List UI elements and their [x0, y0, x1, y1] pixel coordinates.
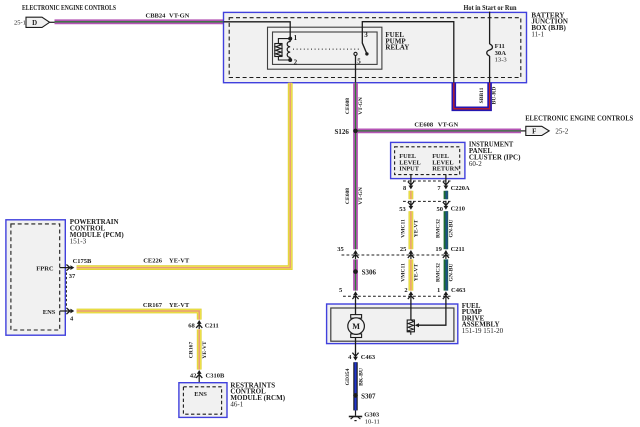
wire CE608 VT-GN (S126 to EEC F) — [358, 128, 521, 133]
relay suppression resistor branch — [278, 39, 290, 44]
instrument panel cluster (IPC) outline — [391, 142, 465, 178]
svg-text:YE-VT: YE-VT — [169, 302, 190, 309]
svg-text:CBB24: CBB24 — [146, 13, 167, 20]
svg-text:151-19 151-20: 151-19 151-20 — [462, 327, 504, 335]
splice node S306 — [353, 269, 358, 274]
label RESTRAINTS CONTROL MODULE (RCM) 46-1 — [230, 381, 285, 408]
connector C220A dashed line — [403, 180, 451, 182]
svg-text:ELECTRONIC ENGINE CONTROLS: ELECTRONIC ENGINE CONTROLS — [525, 115, 633, 123]
relay actuation dotted link — [293, 48, 359, 50]
battery junction box (BJB) outline — [224, 12, 527, 82]
connector C210 pin 50 — [443, 201, 449, 210]
svg-text:ELECTRONIC ENGINE CONTROLS: ELECTRONIC ENGINE CONTROLS — [22, 5, 116, 12]
svg-text:1: 1 — [437, 287, 440, 294]
svg-text:5: 5 — [357, 58, 361, 66]
svg-text:RETURN: RETURN — [432, 166, 459, 173]
wire relay pin 5 down to BJB edge — [355, 56, 357, 83]
wire stub to connector F — [521, 130, 526, 132]
svg-text:10-11: 10-11 — [365, 418, 380, 425]
fuel pump drive assembly outline — [327, 304, 458, 344]
restraints control module (RCM) outline — [179, 383, 227, 418]
connector C210 dashed line — [403, 200, 451, 202]
relay switch contact (pin 5) — [354, 52, 357, 55]
svg-text:C310B: C310B — [206, 372, 225, 379]
svg-text:CE608: CE608 — [345, 98, 351, 114]
label POWERTRAIN CONTROL MODULE (PCM) 151-3 — [70, 218, 125, 246]
svg-text:CR167: CR167 — [189, 342, 195, 359]
svg-text:68: 68 — [188, 322, 195, 329]
wire RMC32 GN-BU (C211 to C463) — [444, 259, 449, 290]
svg-text:CR167: CR167 — [143, 302, 163, 309]
svg-text:42: 42 — [190, 372, 197, 379]
IPC inner dashed boundary — [395, 147, 460, 175]
svg-text:ENS: ENS — [194, 391, 207, 398]
relay coil pin 2 — [288, 58, 292, 62]
svg-text:CE608: CE608 — [414, 121, 434, 128]
wire VMC11 YE-VT (C220A to C210) — [408, 191, 413, 199]
splice node S126 — [353, 129, 358, 134]
wire CE608 VT-GN (relay pin5 to S126 and C211) — [353, 83, 358, 250]
svg-text:37: 37 — [69, 273, 76, 280]
wire CR167 YE-VT (PCM ENS to C211) — [77, 311, 200, 320]
svg-text:YE-VT: YE-VT — [202, 341, 208, 359]
svg-text:25: 25 — [400, 246, 407, 253]
svg-text:CE226: CE226 — [143, 258, 163, 265]
svg-text:S126: S126 — [335, 128, 350, 136]
connector C211 pin 25 — [408, 250, 414, 259]
IPC pin 8 stub — [410, 174, 412, 181]
label INSTRUMENT PANEL CLUSTER (IPC) 60-2 — [469, 141, 521, 168]
svg-text:2: 2 — [404, 287, 407, 294]
relay resistor element — [275, 44, 282, 57]
svg-text:BK-BU: BK-BU — [358, 368, 364, 386]
label BATTERY JUNCTION BOX (BJB) 11-1 — [531, 11, 568, 38]
svg-text:YE-VT: YE-VT — [414, 264, 420, 282]
svg-text:RMC32: RMC32 — [435, 263, 441, 282]
svg-text:1: 1 — [294, 34, 298, 42]
wire CE226 YE-VT (relay coil to PCM FPRC) — [77, 83, 291, 268]
svg-text:VMC11: VMC11 — [400, 263, 406, 282]
in-line connector C211 pin 68 — [196, 320, 202, 329]
wire stub to ground — [355, 410, 357, 415]
fuel pump relay inner case — [273, 32, 378, 64]
svg-text:S306: S306 — [362, 269, 377, 277]
label F11 30A 13-3 — [495, 43, 508, 63]
svg-text:INPUT: INPUT — [399, 166, 419, 173]
connector C220A pin 8 — [408, 180, 414, 189]
svg-text:C211: C211 — [451, 246, 465, 253]
relay switch pin 3 riser — [362, 22, 454, 83]
svg-text:35: 35 — [337, 246, 344, 253]
svg-text:VT-GN: VT-GN — [358, 187, 364, 205]
svg-text:D: D — [32, 20, 37, 27]
connector C211 dashed line — [342, 254, 451, 256]
relay coil winding — [287, 42, 290, 58]
svg-text:C175B: C175B — [73, 258, 92, 265]
wire RMC32 GN-BU (C210 to C211) — [444, 211, 449, 249]
svg-text:C211: C211 — [205, 322, 219, 329]
svg-text:151-3: 151-3 — [70, 238, 87, 246]
svg-text:C463: C463 — [451, 287, 466, 294]
svg-text:GD354: GD354 — [345, 368, 351, 385]
wire pin2 into level sender — [410, 300, 412, 320]
fuse F11 30A — [487, 44, 493, 56]
wire stub from connector D — [50, 21, 55, 23]
wire fuse output down inside BJB — [489, 56, 491, 83]
svg-text:VT-GN: VT-GN — [169, 13, 190, 20]
relay switch blade — [362, 43, 367, 54]
svg-text:GN-BU: GN-BU — [449, 219, 455, 237]
svg-text:RMC32: RMC32 — [435, 219, 441, 238]
wire motor to pin 4 — [355, 338, 357, 353]
wire SBB11 BU-RD (fuse F11 to relay switch) — [454, 83, 490, 109]
connector C210 pin 53 — [408, 201, 414, 210]
label FUEL PUMP RELAY — [385, 31, 409, 52]
IPC pin 7 stub — [445, 174, 447, 181]
svg-text:SBB11: SBB11 — [479, 87, 485, 103]
svg-text:VT-GN: VT-GN — [358, 97, 364, 115]
svg-text:53: 53 — [399, 206, 406, 213]
svg-text:46-1: 46-1 — [230, 401, 243, 409]
svg-text:M: M — [352, 322, 360, 331]
svg-text:25-1: 25-1 — [14, 20, 26, 27]
svg-text:25-2: 25-2 — [555, 127, 568, 135]
wire CBB24 VT-GN (EEC D to relay coil) — [55, 19, 224, 24]
svg-text:FPRC: FPRC — [36, 265, 54, 272]
fuel pump drive assembly inner case — [331, 308, 454, 341]
connector C463 dashed line — [343, 295, 451, 297]
connector C220A pin 7 — [443, 180, 449, 189]
fuel pump relay outer case — [268, 27, 382, 69]
connector C463 pin 1 — [443, 291, 449, 300]
svg-text:BU-RD: BU-RD — [492, 87, 498, 105]
fuel level sender resistor — [407, 320, 414, 332]
connector C463 pin 4 — [352, 352, 358, 361]
wire VMC11 YE-VT (C210 to C211) — [408, 211, 413, 249]
svg-text:13-3: 13-3 — [495, 56, 508, 63]
svg-text:VMC11: VMC11 — [400, 219, 406, 238]
svg-text:3: 3 — [364, 31, 368, 39]
wire VMC11 YE-VT (C211 to C463) — [408, 259, 413, 290]
in-line connector C310B pin 42 — [196, 370, 202, 379]
svg-text:VT-GN: VT-GN — [438, 121, 459, 128]
svg-text:2: 2 — [294, 59, 298, 67]
svg-text:Hot in Start or Run: Hot in Start or Run — [464, 4, 517, 12]
connector C463 pin 2 — [408, 291, 414, 300]
wire from hot feed to fuse F11 — [489, 12, 491, 44]
wire CR167 YE-VT (C211 to C310B) — [197, 329, 202, 369]
connector C211 pin 19 — [443, 250, 449, 259]
svg-text:GN-BU: GN-BU — [449, 263, 455, 281]
relay coil pin 1 — [288, 37, 292, 41]
powertrain control module (PCM) outline — [6, 220, 65, 335]
wire pin5 into pump motor — [355, 300, 357, 315]
svg-text:RELAY: RELAY — [385, 44, 409, 52]
svg-text:C220A: C220A — [451, 185, 470, 192]
C175B dashed connector boundary — [65, 273, 67, 307]
label FUEL PUMP DRIVE ASSEMBLY 151-19 151-20 — [462, 302, 504, 335]
PCM inner dashed boundary — [11, 224, 60, 330]
connector C463 pin 5 — [352, 291, 358, 300]
svg-text:YE-VT: YE-VT — [169, 258, 190, 265]
BJB inner dashed boundary — [229, 18, 521, 78]
RCM ENS dashed sub-box — [183, 387, 221, 414]
connector C211 pin 35 — [352, 250, 358, 259]
ground G303 symbol — [349, 417, 362, 421]
svg-text:C463: C463 — [361, 354, 376, 361]
wire GD354 BK-BU (pump to ground G303) — [353, 362, 357, 410]
svg-text:11-1: 11-1 — [531, 31, 544, 39]
svg-text:YE-VT: YE-VT — [414, 220, 420, 238]
svg-text:F: F — [532, 129, 536, 136]
wire CE608 VT-GN (C211 to C463) — [353, 259, 358, 290]
svg-text:ENS: ENS — [43, 309, 56, 316]
fuel pump motor M — [348, 315, 365, 338]
svg-text:CE608: CE608 — [345, 188, 351, 204]
wire CBB24 continuation to relay coil pin 1 — [224, 22, 291, 39]
splice node S307 — [353, 393, 358, 398]
connector D (off-page) — [26, 17, 50, 27]
wire stub into RCM — [198, 379, 200, 384]
svg-text:60-2: 60-2 — [469, 160, 482, 168]
svg-text:S307: S307 — [361, 392, 376, 400]
svg-text:19: 19 — [435, 246, 442, 253]
connector F (off-page) — [526, 126, 549, 135]
svg-text:50: 50 — [437, 206, 444, 213]
svg-text:C210: C210 — [451, 206, 465, 213]
wire RMC32 GN-BU (C220A to C210) — [444, 191, 449, 199]
sender wiper arm wire to pin 1 — [418, 300, 446, 325]
label FUEL LEVEL INPUT — [399, 153, 420, 173]
label FUEL LEVEL RETURN — [432, 153, 459, 173]
